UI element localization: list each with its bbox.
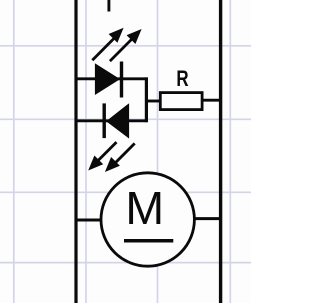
svg-text:R: R <box>176 67 188 92</box>
wire motor left <box>76 219 102 222</box>
grid line vertical 1 <box>13 0 15 303</box>
grid line horizontal 4 <box>0 262 251 264</box>
grid line vertical 4 <box>229 0 231 303</box>
wire left rail <box>74 0 77 303</box>
wire bottom LED branch <box>76 119 148 122</box>
wire resistor left stub <box>146 100 161 103</box>
grid line vertical 2 <box>85 0 87 303</box>
wire junction vertical <box>145 77 148 122</box>
motor M1 <box>101 173 194 266</box>
svg-text:M: M <box>125 182 164 234</box>
wire top stub <box>107 0 110 12</box>
LED D1 <box>92 28 141 98</box>
grid line horizontal 2 <box>0 118 251 120</box>
LED D2 <box>88 103 135 172</box>
wire motor right <box>193 217 221 220</box>
wire right rail <box>219 0 222 303</box>
wire top LED branch <box>76 77 148 80</box>
grid line horizontal 3 <box>0 191 251 193</box>
grid line vertical 3 <box>157 0 159 303</box>
grid line horizontal 1 <box>0 45 251 47</box>
resistor R <box>160 93 202 110</box>
wire resistor right stub <box>202 99 221 102</box>
